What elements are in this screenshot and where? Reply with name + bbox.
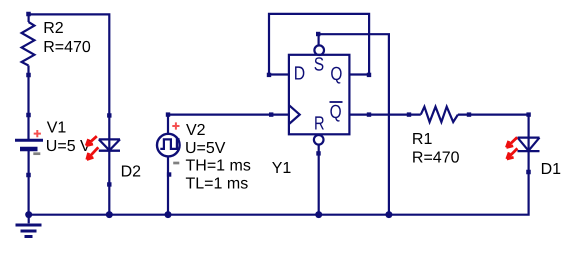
svg-text:Q: Q (330, 64, 342, 85)
svg-text:D1: D1 (541, 161, 562, 178)
svg-text:Y1: Y1 (272, 160, 292, 177)
svg-text:V2: V2 (186, 122, 206, 139)
svg-text:TL=1 ms: TL=1 ms (186, 175, 249, 192)
svg-text:R=470: R=470 (43, 39, 91, 56)
svg-text:U=5V: U=5V (185, 140, 226, 157)
svg-text:R: R (314, 113, 325, 134)
svg-text:R2: R2 (43, 20, 64, 37)
svg-text:S: S (314, 55, 324, 76)
svg-text:R1: R1 (412, 131, 433, 148)
svg-text:D: D (294, 64, 305, 85)
svg-text:R=470: R=470 (412, 149, 460, 166)
svg-text:TH=1 ms: TH=1 ms (186, 158, 251, 175)
svg-text:Q: Q (330, 102, 342, 123)
svg-text:V1: V1 (47, 119, 67, 136)
svg-text:U=5 V: U=5 V (46, 138, 91, 155)
svg-text:D2: D2 (121, 164, 142, 181)
